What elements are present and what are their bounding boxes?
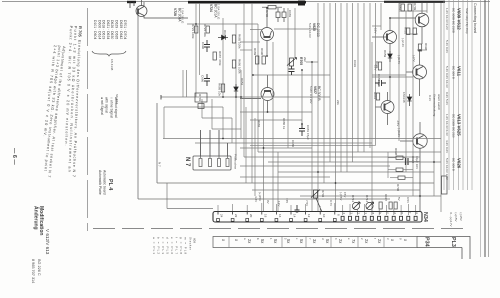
svg-text:Automatik Platte: Automatik Platte [98,170,102,195]
svg-text:x: x [403,239,408,241]
small box lower right [442,176,448,194]
svg-text:3x: 3x [312,239,317,243]
capacitor C681 [299,124,305,136]
legend with/without signal [100,94,119,118]
svg-text:R696: R696 [424,43,428,51]
P34 tiny labels [243,238,402,240]
transistor V626 [400,122,427,212]
svg-text:16: 16 [278,214,282,218]
svg-text:BG 226 C: BG 226 C [37,259,41,276]
capacitor C685 [289,66,295,75]
svg-text:C681 15µF: C681 15µF [306,125,310,140]
resistor R724 [206,26,209,33]
svg-text:10µF 10V: 10µF 10V [415,156,419,169]
svg-text:5x: 5x [286,239,291,243]
svg-text:0V: 0V [266,200,270,204]
svg-text:● mit Signal: ● mit Signal [100,97,104,115]
svg-text:24: 24 [220,214,224,218]
svg-text:4.2V 0.6V: 4.2V 0.6V [445,140,449,153]
trimmer R704 above N34 [311,190,322,213]
svg-text:Stecker: Stecker [189,237,193,250]
svg-text:4.2V: 4.2V [254,196,258,202]
svg-text:C682: C682 [398,3,402,11]
diode D639 [218,35,228,40]
svg-text:BC 308 B: BC 308 B [317,86,321,101]
svg-text:2x: 2x [377,239,382,243]
svg-text:a = PL1: a = PL1 [152,237,156,254]
svg-text:8 965 707 314: 8 965 707 314 [31,259,35,283]
svg-text:V 612/V 613: V 612/V 613 [45,229,50,255]
svg-text:R682: R682 [257,120,261,128]
svg-text:V626: V626 [457,158,462,169]
svg-text:1.6V 10.3V 0.2V: 1.6V 10.3V 0.2V [445,8,449,30]
trimmer R705 [287,58,297,67]
cluster top right C682 R709 [401,4,411,11]
svg-text:C691: C691 [353,60,357,68]
svg-text:D101 · D604: D101 · D604 [93,20,97,39]
svg-text:Connecting board: Connecting board [473,3,477,33]
svg-text:0.5V: 0.5V [406,197,410,203]
svg-text:(+)15V: (+)15V [454,212,458,221]
pot R711 above N34 [366,202,374,210]
N7 test socket box [193,130,231,170]
svg-text:b = PL2: b = PL2 [157,237,161,254]
svg-text:0...(+)4.7V: 0...(+)4.7V [449,212,453,226]
svg-text:V611: V611 [457,66,462,77]
svg-text:R690: R690 [260,48,264,56]
svg-text:R713: R713 [351,195,355,203]
svg-text:V728: V728 [173,8,177,16]
N7 pin 3 [218,159,221,167]
wire bus vertical group B right [372,3,441,212]
N34 pin stub wires [218,203,416,215]
svg-text:V724: V724 [209,4,213,12]
P34 x marks row [221,239,408,243]
svg-text:P34: P34 [424,237,430,247]
wire bus vertical group A [318,3,376,212]
right table text group D [445,158,462,180]
svg-text:C683: C683 [288,10,292,18]
wire blob top-left [127,1,136,3]
svg-text:0.2V 5.6V: 0.2V 5.6V [445,92,449,105]
svg-text:R680 1k: R680 1k [282,118,286,130]
diode D649 [407,94,411,106]
capacitor C686 [204,74,210,86]
svg-text:1N 4148: 1N 4148 [110,59,114,71]
right sheet border double line [484,0,486,257]
resistor above N34 b [389,202,397,209]
svg-text:-15V: -15V [396,120,400,126]
svg-text:D618 · D619: D618 · D619 [102,20,106,39]
svg-text:D639: D639 [223,30,227,38]
diode list brace [92,51,126,56]
right table text group C [445,114,462,153]
cluster stub wires [388,152,420,178]
right mid cluster R698 C698 [396,156,408,171]
svg-text:V609 V612: V609 V612 [457,8,462,30]
resistor R687 [213,52,216,60]
pot R710 above N34 [352,202,360,210]
R705 adjustment text english [38,45,66,178]
top sheet border line [2,1,490,3]
svg-text:e = PL6: e = PL6 [170,237,174,254]
svg-text:1 BA 30 LG: 1 BA 30 LG [217,4,221,20]
svg-text:○ ohne Signal: ○ ohne Signal [110,97,114,118]
svg-text:R703: R703 [198,94,202,102]
svg-text:0.1V: 0.1V [428,95,432,101]
svg-text:(-)0.7V: (-)0.7V [397,55,401,64]
svg-text:C680: C680 [291,140,295,148]
svg-text:N 7: N 7 [184,157,190,167]
N7 pin 4 [226,159,229,167]
PL4 frame left edge [137,14,139,199]
right table text group B [445,66,462,105]
svg-text:2x: 2x [247,239,252,243]
N7 pin 1 [199,159,202,167]
svg-text:7x: 7x [351,239,356,243]
svg-text:5x: 5x [299,239,304,243]
svg-text:Automatic board: Automatic board [102,170,106,195]
svg-text:silent switch: silent switch [437,94,441,111]
resistor R685 [232,35,235,43]
svg-text:R641: R641 [373,92,377,100]
svg-text:R697: R697 [384,194,388,202]
svg-text:5.4V 0.6V: 5.4V 0.6V [445,40,449,53]
transistor V627 [240,75,274,112]
transistor V625 [261,8,274,56]
svg-text:BC 308B BC 218B: BC 308B BC 218B [452,8,456,33]
svg-text:PL3: PL3 [450,237,456,247]
resistor R723 [195,26,198,33]
svg-text:with signal: with signal [104,97,108,113]
svg-text:12: 12 [307,214,311,218]
svg-text:f: f [408,212,412,213]
svg-text:1N4148: 1N4148 [402,92,406,103]
svg-text:R685 100k: R685 100k [238,34,242,49]
capacitor C696 [204,40,210,52]
svg-text:V625: V625 [312,23,316,31]
Automatik Platte PL4 label [98,170,113,195]
svg-text:22k: 22k [336,100,340,105]
svg-text:2x: 2x [364,239,369,243]
svg-text:C698: C698 [411,156,415,164]
left sheet border (warped) [87,8,89,231]
svg-text:D626 · D630: D626 · D630 [110,20,114,39]
component cluster C683/R684 [276,8,286,22]
heavy top border segment [188,1,306,4]
diode D659 [388,51,392,62]
svg-text:R724 30k: R724 30k [203,24,207,37]
svg-text:745: 745 [285,198,289,203]
resistor P641 [376,93,379,100]
right table frame lines [444,0,481,257]
svg-text:R700: R700 [396,184,400,192]
svg-text:5x: 5x [273,239,278,243]
svg-text:R687 470k: R687 470k [218,51,222,66]
svg-text:2k2: 2k2 [303,57,307,62]
svg-text:BC 308 B: BC 308 B [452,158,456,171]
svg-text:V613 V625: V613 V625 [457,114,462,136]
svg-text:10: 10 [322,214,326,218]
svg-text:D639 · D642: D639 · D642 [119,20,123,39]
resistor R708 [262,6,282,9]
inner frame bottom edge [157,182,434,184]
N34 pin number labels [220,212,420,217]
capacitor C688 [375,80,386,86]
svg-text:x: x [234,239,239,241]
transistor V609 [390,2,429,44]
resistor R696 [418,44,421,51]
svg-text:Stummschaltung: Stummschaltung [433,94,437,117]
svg-text:-15V: -15V [374,27,378,33]
svg-text:20: 20 [249,214,253,218]
resistor R692 [378,62,381,70]
svg-text:609: 609 [193,238,197,243]
inner frame left edge [156,103,158,183]
svg-text:5x: 5x [260,239,265,243]
svg-text:(+)15V: (+)15V [258,192,262,201]
svg-text:Start-stop-Flip-Flop: Start-stop-Flip-Flop [465,8,469,34]
N7 wires up [200,130,202,158]
svg-text:R714: R714 [365,195,369,203]
svg-text:D701 · D704: D701 · D704 [123,20,127,39]
diode D652 [234,84,238,96]
PL3 frame lines [417,237,470,260]
heavy top border segment right [384,1,445,3]
boxed component R703 [195,93,207,109]
PL4 frame bottom edge [138,198,390,200]
svg-text:12V: 12V [277,201,281,206]
svg-text:C696: C696 [201,42,205,50]
N34 left section pin ticks [217,212,337,222]
svg-text:N 7: N 7 [158,162,162,167]
svg-text:D629 · D635: D629 · D635 [115,20,119,39]
svg-text:R698: R698 [394,148,398,156]
N34 pins [341,216,417,220]
svg-text:PL 4: PL 4 [107,179,113,190]
lead line to N34 [167,183,213,209]
svg-text:C686: C686 [201,75,205,83]
svg-text:R705: R705 [299,57,303,65]
svg-text:5.6V 10.6V 1.4V: 5.6V 10.6V 1.4V [445,158,449,180]
svg-text:D659: D659 [383,50,387,58]
N7 pin 2 [209,159,212,167]
transistor V611 [406,50,427,96]
svg-text:(-)15V: (-)15V [459,212,463,220]
svg-text:18: 18 [263,214,267,218]
svg-text:2x: 2x [338,239,343,243]
svg-text:f = PL7: f = PL7 [175,237,179,254]
Stecker legend [152,237,197,254]
svg-text:R723 100k: R723 100k [191,24,195,39]
svg-text:x: x [390,239,395,241]
transistor V728 [136,0,188,18]
svg-text:5V: 5V [397,197,401,201]
svg-text:Modification: Modification [38,206,44,235]
resistor R689 R690 pair [256,56,266,64]
svg-text:N34: N34 [422,212,428,222]
svg-text:SF 6X4: SF 6X4 [115,94,119,104]
svg-text:R709: R709 [413,3,417,11]
resistor R686 [232,60,235,68]
svg-text:(-)0.6V: (-)0.6V [397,128,401,137]
svg-text:C688 5p6: C688 5p6 [377,74,381,87]
svg-text:5x: 5x [325,239,330,243]
wire horizontal rails [161,11,441,196]
svg-text:(-)15V: (-)15V [339,192,343,200]
top border blob [298,1,305,6]
resistor above N34 a [379,202,382,209]
svg-text:1 BA 30 LG: 1 BA 30 LG [181,8,185,24]
svg-text:m = PL9: m = PL9 [184,237,188,254]
svg-text:15V: 15V [343,192,347,197]
svg-text:R686 100k: R686 100k [238,59,242,74]
dashed cut line bottom [93,228,470,230]
svg-text:— 6 —: — 6 — [11,148,17,165]
wire bus vertical group left/middle [183,3,312,212]
svg-text:R689: R689 [253,48,257,56]
resistor R688 [221,84,224,92]
R705 adjustment text german [63,26,83,177]
P34 header strip [213,237,417,248]
cluster R700 [398,176,405,179]
right table text group A [445,8,469,53]
svg-text:D621 · D634: D621 · D634 [106,20,110,39]
svg-text:Prüfbuchse: Prüfbuchse [234,154,238,170]
svg-text:R688 10k: R688 10k [218,83,222,96]
svg-text:R708: R708 [265,10,269,18]
svg-text:BC 308 B: BC 308 B [452,66,456,79]
svg-text:-15V: -15V [374,64,378,70]
svg-text:D606 · D614: D606 · D614 [97,20,101,39]
svg-text:(-)7V: (-)7V [412,55,416,62]
svg-text:22: 22 [234,214,238,218]
admin text Aenderung/Modification [31,206,50,283]
svg-text:g = PL8: g = PL8 [179,237,183,254]
svg-text:V627: V627 [313,86,317,94]
svg-text:x: x [221,239,226,241]
transistor V612 [372,18,397,52]
junction stub left [160,95,162,100]
diode list [92,20,127,71]
svg-text:DC 230B DC 21B: DC 230B DC 21B [452,114,456,138]
svg-text:(-)2.4V: (-)2.4V [401,38,405,47]
svg-text:c = PL3: c = PL3 [161,237,165,254]
ground symbol above N34 [295,205,300,212]
svg-text:d = PL5: d = PL5 [166,237,170,254]
svg-text:5 MV 0.3 WV: 5 MV 0.3 WV [309,86,313,104]
N34 connector box [213,212,422,223]
svg-text:R693: R693 [404,27,408,35]
svg-text:R704: R704 [321,190,325,198]
P34 strip internal dividers [229,237,384,248]
svg-text:1.6V 10.4V 0.4V: 1.6V 10.4V 0.4V [445,114,449,136]
transistor V613 [375,92,394,125]
cluster R693 C16 [407,28,417,35]
svg-text:5.4V 0.6V 10.3V: 5.4V 0.6V 10.3V [445,66,449,88]
svg-text:0.7V: 0.7V [329,200,333,206]
svg-text:5.6V 10.6V: 5.6V 10.6V [308,23,312,38]
svg-text:D652: D652 [240,78,244,86]
svg-text:14: 14 [293,214,297,218]
